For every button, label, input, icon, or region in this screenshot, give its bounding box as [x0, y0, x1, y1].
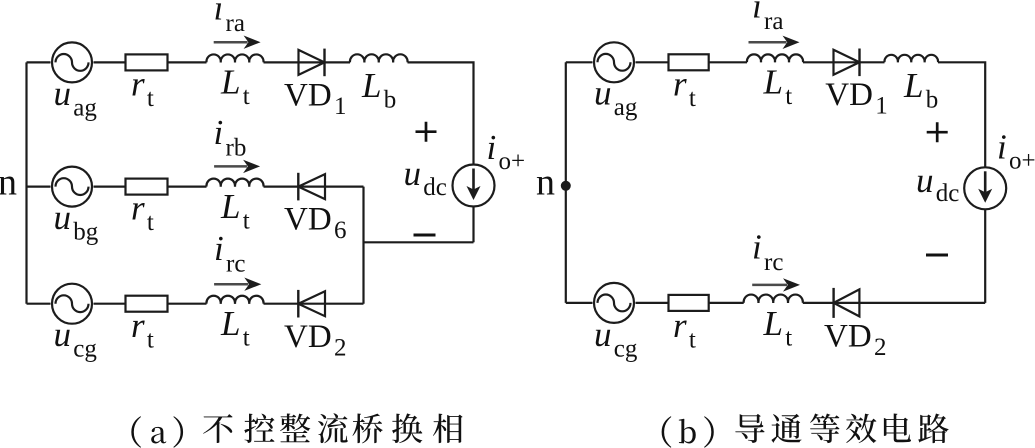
wire: b top row, source to resistor: [636, 61, 669, 63]
inductor L_t (phase a): [206, 54, 263, 62]
wire: b-phase row, inductor through VD6 to mid rail: [264, 186, 364, 188]
wire: a-phase row, inductor through VD1 to L_b: [264, 61, 351, 63]
diode VD1: [299, 49, 325, 77]
resistor r_t (phase a) (box): [126, 54, 168, 70]
current flow arrow i_rc (circuit b): [752, 278, 800, 291]
minus sign dc bus - (circuit b): [926, 254, 948, 257]
plus sign dc bus + (circuit b): [927, 122, 948, 142]
inductor L_t (phase c): [206, 296, 263, 304]
current flow arrow i_rc: [214, 278, 261, 291]
wire: a-phase row, source to resistor: [94, 61, 126, 63]
wire: b-phase row, resistor to inductor: [168, 186, 207, 188]
resistor r_t (circuit b bottom) (box): [669, 295, 709, 311]
inductor L_b: [350, 54, 408, 62]
wire: top right corner to current source: [408, 62, 474, 164]
inductor L_t (phase b): [206, 179, 263, 187]
wire: b bottom row, source to resistor: [636, 302, 669, 304]
wire: c-phase row, resistor to inductor: [168, 303, 207, 305]
AC source u_cg (circuit b): [594, 283, 634, 323]
AC source u_ag (phase a): [52, 42, 92, 82]
resistor r_t (phase c) (box): [126, 296, 168, 312]
inductor L_b (circuit b): [884, 55, 938, 62]
inductor L_t (circuit b bottom): [744, 295, 803, 303]
AC source u_bg (phase b): [52, 167, 92, 207]
resistor r_t (circuit b top) (box): [669, 54, 709, 70]
diode VD2: [298, 290, 325, 318]
wire: b bottom row, resistor to inductor: [709, 302, 744, 304]
wire: b bottom row, inductor through VD2 to right rail: [803, 302, 985, 304]
current flow arrow i_rb: [214, 160, 260, 173]
wire: current source to bottom node: [472, 207, 474, 242]
wire: b-phase row, source to resistor: [94, 186, 126, 188]
resistor r_t (phase b) (box): [126, 179, 168, 195]
current flow arrow i_ra: [214, 36, 261, 49]
current flow arrow i_ra (circuit b): [749, 36, 800, 49]
svg-text:n: n: [0, 162, 17, 204]
wire: b-phase row, rail to source: [27, 186, 51, 188]
wire: a-phase row, rail to source: [27, 61, 51, 63]
current source u_dc / i_o+ (circuit b) (dc load): [964, 167, 1006, 209]
wire: b top row, inductor through VD1 to L_b: [803, 61, 885, 63]
AC source u_ag (circuit b): [594, 42, 634, 82]
caption (b) 导通等效电路: [662, 414, 949, 448]
diode VD1 (circuit b): [834, 49, 860, 77]
wire: b bottom row, rail to source: [566, 302, 593, 304]
wire: b top row, rail to source: [566, 61, 593, 63]
caption (a) 不控整流桥换相: [131, 413, 462, 447]
wire: left rail circuit b: [565, 62, 567, 303]
AC source u_cg (phase c): [52, 284, 92, 324]
wire: c-phase row, source to resistor: [94, 303, 126, 305]
wire: bottom return wire: [364, 241, 474, 243]
current source u_dc / i_o+ (circuit a) (dc load): [453, 165, 495, 207]
wire: c-phase row, inductor through VD2 to mid rail: [264, 303, 364, 305]
wire: mid vertical rail (VD6/VD2 cathode bus): [362, 187, 364, 304]
plus sign dc bus + (circuit a): [416, 122, 437, 142]
node n junction dot (circuit b): [561, 181, 571, 191]
wire: a-phase row, resistor to inductor: [168, 61, 207, 63]
svg-text:n: n: [536, 162, 555, 204]
wire: b top right corner to current source: [938, 62, 985, 167]
wire: b top row, resistor to inductor: [709, 61, 747, 63]
diode VD2 (circuit b): [834, 288, 860, 318]
wire: c-phase row, rail to source: [27, 303, 51, 305]
wire: left rail circuit a: [25, 62, 27, 303]
inductor L_t (circuit b top): [747, 54, 803, 62]
minus sign dc bus - (circuit a): [414, 234, 436, 237]
wire: b right rail, current source to bottom row: [984, 210, 986, 303]
diode VD6: [298, 173, 325, 201]
